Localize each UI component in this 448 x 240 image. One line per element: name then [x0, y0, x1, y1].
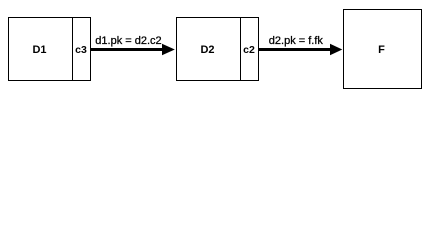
arrowhead at F	[330, 44, 342, 56]
arrowhead at D2	[162, 44, 175, 56]
svg-text:c3: c3	[75, 44, 87, 56]
svg-text:d1.pk = d2.c2: d1.pk = d2.c2	[95, 35, 161, 47]
divider column c2 in D2	[240, 18, 242, 81]
svg-text:D1: D1	[32, 44, 46, 56]
wire D1 to D2	[91, 48, 166, 51]
wire D2 to F	[259, 48, 334, 51]
svg-text:c2: c2	[243, 44, 255, 56]
table box F	[344, 10, 422, 89]
svg-text:d2.pk = f.fk: d2.pk = f.fk	[269, 35, 324, 47]
svg-text:F: F	[378, 44, 385, 56]
table box D2	[177, 18, 259, 81]
divider column c3 in D1	[72, 18, 74, 81]
table box D1	[9, 18, 91, 81]
svg-text:D2: D2	[200, 44, 214, 56]
